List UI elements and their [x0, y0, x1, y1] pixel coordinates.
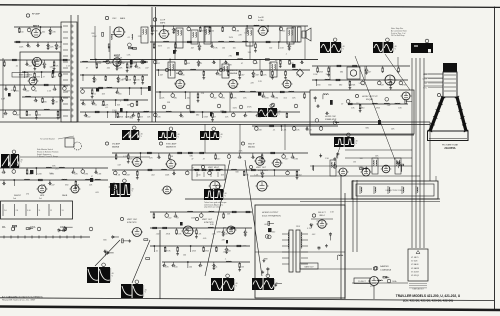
svg-text:3.3M: 3.3M [122, 78, 127, 80]
svg-text:SND IF: SND IF [248, 144, 255, 146]
svg-text:680: 680 [174, 97, 177, 99]
svg-text:.047: .047 [218, 74, 222, 76]
svg-text:270: 270 [229, 55, 232, 57]
svg-text:120K: 120K [257, 130, 262, 132]
svg-text:100: 100 [49, 173, 52, 175]
svg-text:SHUNT: SHUNT [14, 195, 22, 197]
svg-text:V5 6CM7: V5 6CM7 [411, 271, 419, 273]
svg-text:100: 100 [16, 90, 19, 92]
svg-text:47: 47 [54, 76, 56, 78]
svg-text:Howard W. Sams & Co., Inc. 19: Howard W. Sams & Co., Inc. 1957 [2, 299, 36, 302]
svg-text:BASE 50V: BASE 50V [305, 265, 315, 268]
svg-text:.047: .047 [51, 184, 55, 186]
svg-text:120K: 120K [295, 130, 300, 132]
svg-text:470K: 470K [358, 166, 363, 168]
svg-text:C13AXA/DA: C13AXA/DA [380, 268, 392, 271]
svg-text:21AUP4A: 21AUP4A [444, 147, 455, 150]
svg-text:100A: 100A [392, 280, 397, 283]
svg-text:.01: .01 [94, 104, 97, 106]
svg-text:.002: .002 [87, 116, 91, 118]
svg-text:100: 100 [360, 158, 363, 160]
svg-text:amp limits as noted: amp limits as noted [204, 206, 220, 209]
svg-text:150V: 150V [326, 74, 331, 76]
svg-text:100: 100 [197, 174, 200, 176]
svg-text:.002: .002 [41, 31, 45, 33]
svg-text:12: 12 [50, 210, 52, 212]
svg-text:VERT OUT: VERT OUT [256, 167, 267, 169]
svg-text:HORIZ OUTPUT: HORIZ OUTPUT [362, 96, 378, 98]
svg-text:6AW8A: 6AW8A [112, 146, 120, 149]
svg-text:20 Per Bell Resp: 20 Per Bell Resp [391, 35, 404, 37]
svg-text:.047: .047 [367, 71, 371, 73]
svg-text:.047: .047 [220, 110, 224, 112]
svg-text:5AUB: 5AUB [62, 194, 68, 197]
svg-text:120K: 120K [26, 76, 31, 78]
svg-text:.047: .047 [26, 90, 30, 92]
svg-text:.01: .01 [93, 93, 96, 95]
svg-text:.01: .01 [15, 65, 18, 67]
svg-text:.002: .002 [312, 234, 316, 236]
svg-text:680: 680 [4, 88, 7, 90]
svg-text:47: 47 [241, 63, 243, 65]
svg-text:3.3M: 3.3M [204, 116, 209, 118]
svg-text:3.3M: 3.3M [274, 97, 279, 99]
svg-text:DAMPER: DAMPER [380, 265, 389, 268]
svg-text:470K: 470K [370, 286, 375, 288]
svg-text:6BC5: 6BC5 [33, 25, 40, 28]
svg-text:.005: .005 [95, 192, 99, 194]
svg-text:.002: .002 [283, 97, 287, 99]
svg-text:47: 47 [341, 103, 343, 105]
svg-text:A"T STANDARD NOTATION SCHEMATI: A"T STANDARD NOTATION SCHEMATIC [2, 296, 43, 299]
svg-text:6BL4: 6BL4 [319, 215, 325, 217]
svg-text:120K: 120K [49, 46, 54, 48]
svg-text:100: 100 [183, 255, 186, 257]
svg-text:100: 100 [282, 30, 285, 32]
svg-text:.047: .047 [285, 158, 289, 160]
svg-text:150V: 150V [92, 36, 97, 38]
svg-text:.002: .002 [156, 63, 160, 65]
svg-text:680: 680 [65, 184, 68, 186]
svg-text:3rd: 3rd [39, 198, 42, 200]
svg-text:680: 680 [278, 163, 281, 165]
svg-text:3.3M: 3.3M [235, 30, 240, 32]
svg-text:VERT OUT: VERT OUT [202, 219, 213, 221]
svg-text:6AF4: 6AF4 [120, 17, 126, 20]
svg-text:47: 47 [86, 67, 88, 69]
svg-text:47: 47 [91, 176, 93, 178]
svg-text:3.3M: 3.3M [294, 158, 299, 160]
svg-text:STABILIZER: STABILIZER [325, 118, 337, 121]
svg-text:270: 270 [26, 194, 29, 196]
svg-text:TRAV-LER MODELS 421-200, U,: TRAV-LER MODELS 421-200, U, 421-202, U [396, 294, 461, 298]
svg-text:120K: 120K [51, 31, 56, 33]
svg-text:120K: 120K [50, 67, 55, 69]
svg-text:270: 270 [55, 168, 58, 170]
svg-text:.047: .047 [274, 60, 278, 62]
svg-text:6AW8/6T8: 6AW8/6T8 [166, 146, 177, 149]
svg-text:150V: 150V [158, 46, 163, 48]
svg-text:6CU6 THYRATRON: 6CU6 THYRATRON [262, 215, 281, 218]
svg-text:.005: .005 [270, 111, 274, 113]
svg-text:47: 47 [192, 168, 194, 170]
svg-text:1st IF: 1st IF [160, 19, 166, 22]
svg-text:47: 47 [177, 217, 179, 219]
svg-text:.01: .01 [258, 116, 261, 118]
svg-text:120K: 120K [217, 232, 222, 234]
svg-text:120K: 120K [156, 116, 161, 118]
svg-text:.002: .002 [156, 233, 160, 235]
svg-text:SELECT: SELECT [318, 212, 327, 214]
svg-text:680: 680 [118, 93, 121, 95]
svg-text:47: 47 [214, 116, 216, 118]
svg-text:3.3M: 3.3M [36, 76, 41, 78]
svg-text:.002: .002 [151, 174, 155, 176]
svg-text:470K: 470K [213, 47, 218, 49]
svg-text:135V: 135V [296, 226, 301, 228]
svg-text:.047: .047 [117, 164, 121, 166]
svg-text:13: 13 [62, 210, 64, 212]
svg-text:470K: 470K [205, 250, 210, 252]
svg-text:150V: 150V [112, 110, 117, 112]
svg-text:11: 11 [39, 210, 41, 212]
svg-text:47: 47 [191, 158, 193, 160]
svg-text:470K: 470K [376, 108, 381, 110]
svg-text:120K: 120K [165, 174, 170, 176]
svg-text:47: 47 [95, 79, 97, 81]
svg-text:.01: .01 [273, 130, 276, 132]
svg-text:(Ch. 421-36, 421-36, 420-36, 4: (Ch. 421-36, 421-36, 420-36, 422-36) [403, 299, 453, 303]
svg-text:VERT MULT: VERT MULT [208, 167, 220, 169]
svg-text:470K: 470K [166, 233, 171, 235]
svg-text:47: 47 [364, 84, 366, 86]
svg-text:V1 6BC5: V1 6BC5 [411, 257, 419, 259]
svg-text:470K: 470K [351, 84, 356, 86]
svg-text:680: 680 [196, 114, 199, 116]
svg-text:21-RECT: 21-RECT [358, 281, 367, 283]
svg-text:680: 680 [361, 108, 364, 110]
svg-text:1M: 1M [353, 161, 356, 163]
svg-text:100: 100 [174, 266, 177, 268]
svg-text:HORIZ OSC: HORIZ OSC [325, 116, 337, 118]
svg-text:.047: .047 [109, 63, 113, 65]
svg-text:.002: .002 [298, 174, 302, 176]
svg-text:.002: .002 [213, 97, 217, 99]
svg-text:V2 6U8: V2 6U8 [411, 261, 417, 263]
svg-text:.002: .002 [28, 65, 32, 67]
svg-text:.002: .002 [37, 114, 41, 116]
svg-text:TUBE LAYOUT: TUBE LAYOUT [412, 288, 424, 291]
svg-text:680: 680 [328, 84, 331, 86]
svg-text:2nd: 2nd [13, 198, 16, 200]
svg-text:.01: .01 [34, 90, 37, 92]
svg-text:SYNC AMP: SYNC AMP [166, 143, 177, 146]
svg-text:.002: .002 [186, 97, 190, 99]
svg-text:.005: .005 [223, 252, 227, 254]
svg-text:680: 680 [339, 84, 342, 86]
svg-text:680: 680 [317, 84, 320, 86]
svg-text:120K: 120K [37, 173, 42, 175]
svg-text:PICTURE TUBE: PICTURE TUBE [442, 145, 459, 147]
svg-text:100: 100 [269, 47, 272, 49]
svg-text:2-6: 2-6 [4, 210, 7, 212]
svg-text:3.3M: 3.3M [97, 61, 102, 63]
svg-text:.002: .002 [106, 67, 110, 69]
svg-text:.002: .002 [168, 217, 172, 219]
svg-text:3.3M: 3.3M [254, 74, 259, 76]
svg-text:.047: .047 [159, 74, 163, 76]
svg-text:VERT OSC: VERT OSC [127, 219, 138, 221]
svg-text:680: 680 [181, 74, 184, 76]
svg-text:3.3M: 3.3M [125, 174, 130, 176]
svg-text:.1: .1 [285, 53, 287, 55]
svg-text:6CM7/6T8: 6CM7/6T8 [127, 222, 137, 224]
svg-text:.047: .047 [241, 74, 245, 76]
svg-text:120K: 120K [19, 46, 24, 48]
svg-text:9-10: 9-10 [27, 210, 31, 212]
svg-text:VID AMP: VID AMP [112, 143, 121, 146]
svg-text:6BF6: 6BF6 [160, 23, 166, 25]
svg-text:100: 100 [211, 30, 214, 32]
svg-text:47: 47 [182, 116, 184, 118]
svg-text:.01: .01 [167, 47, 170, 49]
svg-text:.01: .01 [200, 63, 203, 65]
svg-text:150V: 150V [233, 108, 238, 110]
svg-text:1M: 1M [387, 84, 390, 86]
svg-text:680: 680 [340, 71, 343, 73]
svg-text:120K: 120K [319, 71, 324, 73]
svg-text:2nd IF: 2nd IF [258, 17, 265, 19]
svg-text:470K: 470K [119, 116, 124, 118]
svg-text:47: 47 [256, 63, 258, 65]
svg-text:47: 47 [84, 104, 86, 106]
svg-text:.005: .005 [203, 238, 207, 240]
svg-text:47: 47 [43, 76, 45, 78]
svg-text:150V: 150V [229, 37, 234, 39]
svg-text:47: 47 [29, 46, 31, 48]
svg-text:MA: MA [2, 226, 6, 229]
svg-text:1. Shunt 2. Local 3. Fringe: 1. Shunt 2. Local 3. Fringe [37, 155, 58, 158]
svg-text:V6 6DQ6: V6 6DQ6 [411, 275, 419, 277]
svg-text:.01: .01 [105, 107, 108, 109]
svg-text:100: 100 [20, 31, 23, 33]
svg-text:.047: .047 [190, 47, 194, 49]
svg-text:680: 680 [190, 155, 193, 157]
svg-text:470K: 470K [175, 30, 180, 32]
svg-text:.1: .1 [225, 259, 227, 261]
svg-text:270: 270 [356, 103, 359, 105]
svg-text:6CB6: 6CB6 [258, 20, 264, 22]
svg-text:120K: 120K [118, 67, 123, 69]
svg-text:.047: .047 [16, 114, 20, 116]
svg-text:1.5K: 1.5K [325, 158, 330, 160]
svg-text:V3 6AU6: V3 6AU6 [411, 263, 419, 266]
svg-text:120K: 120K [192, 250, 197, 252]
svg-text:47: 47 [203, 158, 205, 160]
svg-text:6AU6A: 6AU6A [248, 146, 255, 149]
svg-text:V4 6AW8: V4 6AW8 [411, 267, 419, 270]
svg-text:3.3M: 3.3M [84, 173, 89, 175]
svg-text:680: 680 [44, 101, 47, 103]
svg-text:.047: .047 [380, 84, 384, 86]
svg-text:470K: 470K [165, 30, 170, 32]
svg-text:RF AMP: RF AMP [32, 13, 41, 16]
svg-text:.01: .01 [155, 250, 158, 252]
svg-text:470K: 470K [247, 107, 252, 109]
svg-text:.01: .01 [127, 37, 130, 39]
svg-text:OSC: OSC [112, 18, 117, 20]
svg-text:.01: .01 [215, 266, 218, 268]
svg-text:100: 100 [222, 47, 225, 49]
svg-text:120K: 120K [313, 74, 318, 76]
svg-text:HORIZ OUTPUT: HORIZ OUTPUT [262, 212, 279, 214]
svg-text:680: 680 [222, 97, 225, 99]
svg-text:7-8: 7-8 [16, 210, 19, 212]
svg-text:3.3M: 3.3M [120, 63, 125, 65]
svg-text:47: 47 [157, 60, 159, 62]
svg-text:100: 100 [233, 47, 236, 49]
svg-text:HPN: HPN [40, 195, 45, 197]
svg-text:CATH: CATH [422, 77, 427, 80]
svg-text:470K: 470K [264, 97, 269, 99]
svg-text:100: 100 [189, 266, 192, 268]
svg-text:470K: 470K [166, 250, 171, 252]
svg-text:To Control Bracket: To Control Bracket [40, 138, 55, 141]
svg-text:680: 680 [234, 87, 237, 89]
svg-text:.047: .047 [145, 67, 149, 69]
svg-text:6CM7/6T8: 6CM7/6T8 [204, 222, 214, 224]
svg-text:DEFLECTION YOKE: DEFLECTION YOKE [386, 190, 404, 192]
svg-text:6AW8A: 6AW8A [230, 72, 238, 75]
svg-text:100: 100 [28, 114, 31, 116]
svg-text:820: 820 [130, 118, 133, 120]
svg-text:3.3M: 3.3M [97, 173, 102, 175]
svg-text:G2: G2 [425, 83, 427, 85]
svg-text:.1: .1 [120, 101, 122, 103]
svg-text:135V: 135V [101, 105, 106, 107]
svg-text:.047: .047 [217, 158, 221, 160]
svg-text:470K: 470K [153, 30, 158, 32]
